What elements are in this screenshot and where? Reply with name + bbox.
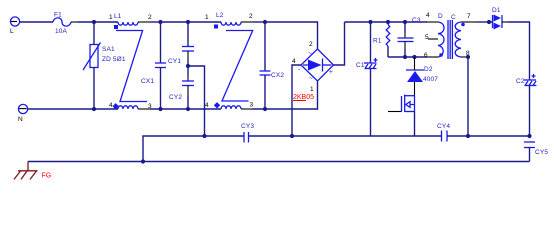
svg-text:~: ~ — [309, 75, 313, 82]
svg-text:4: 4 — [292, 58, 296, 65]
T1 pin7 lead — [461, 21, 477, 23]
svg-text:C3: C3 — [412, 17, 421, 24]
capacitor CY3 — [241, 123, 254, 143]
ground line — [28, 161, 530, 163]
pin8 drop wire — [467, 57, 469, 136]
svg-text:10A: 10A — [55, 28, 68, 35]
varistor SA1 — [83, 22, 126, 109]
node CX1 bottom — [158, 107, 162, 111]
svg-text:CY5: CY5 — [535, 149, 548, 156]
terminal N — [18, 104, 28, 123]
diode D1 (dual) — [489, 7, 508, 30]
svg-text:2: 2 — [148, 14, 152, 21]
snubber node line — [388, 56, 427, 58]
svg-text:5: 5 — [425, 34, 429, 41]
L2 core Z — [222, 31, 253, 102]
L1 polarity dot top — [114, 25, 118, 29]
svg-text:L2: L2 — [216, 12, 224, 19]
MOSFET Q1 — [388, 95, 415, 137]
svg-text:1: 1 — [205, 14, 209, 21]
bridge right lead and riser to DC rail — [334, 22, 345, 65]
node junction SA1 top — [92, 20, 96, 24]
capacitor CY5 — [524, 142, 548, 162]
minus line y136 mid segment — [249, 135, 442, 137]
node C1 top — [368, 20, 372, 24]
T1 secondary winding — [455, 22, 461, 57]
svg-text:D2: D2 — [424, 66, 433, 73]
node pin8 bottom — [466, 134, 470, 138]
capacitor CY4 — [437, 123, 450, 142]
T1 pin5 lead — [428, 38, 438, 40]
svg-text:4: 4 — [426, 12, 430, 19]
node C3 top — [403, 20, 407, 24]
svg-text:+: + — [329, 69, 333, 76]
capacitor CX1 — [141, 22, 166, 109]
electrolytic capacitor C1 — [356, 22, 378, 136]
wire fuse to L1 — [71, 21, 78, 23]
L2 polarity dot top — [214, 25, 218, 29]
common-mode choke L2 — [205, 12, 254, 109]
svg-text:L: L — [10, 28, 14, 35]
terminal L — [10, 17, 20, 35]
capacitor C3 — [398, 17, 421, 57]
wire top rail CY to L2 — [188, 21, 221, 23]
L2 top winding — [221, 22, 241, 25]
L2 polarity dot bottom — [214, 102, 220, 108]
resistor R1 — [373, 22, 390, 57]
svg-text:4: 4 — [205, 102, 209, 109]
svg-text:FG: FG — [42, 173, 52, 180]
T1 secondary polarity dot — [461, 23, 465, 27]
node junction SA1 bottom — [92, 107, 96, 111]
node CY2 bottom — [186, 107, 190, 111]
wire top rail CX2 to bridge corner — [265, 22, 318, 49]
capacitor CX2 — [260, 22, 285, 109]
T1 pin4 lead — [427, 21, 438, 23]
svg-text:7: 7 — [467, 13, 471, 20]
capacitor CY2 — [169, 66, 194, 109]
T1 primary polarity dot — [439, 53, 443, 57]
svg-text:F1: F1 — [54, 12, 62, 19]
capacitor CY1 — [168, 22, 194, 66]
svg-text:D: D — [438, 13, 443, 20]
svg-text:C2: C2 — [516, 78, 525, 85]
svg-text:D1: D1 — [492, 7, 501, 14]
svg-text:2KB05: 2KB05 — [293, 94, 314, 101]
bridge left lead and drop to minus line — [292, 65, 301, 136]
T1 core — [447, 20, 449, 59]
svg-text:CX1: CX1 — [141, 78, 154, 85]
node R1 top — [386, 20, 390, 24]
svg-text:2: 2 — [309, 41, 313, 48]
wire pin7 to D1 — [477, 21, 489, 23]
svg-text:1: 1 — [310, 86, 314, 93]
svg-text:4007: 4007 — [423, 76, 438, 83]
earth FG — [14, 162, 51, 180]
fuse F1 — [53, 12, 71, 36]
wire top rail CX1 to CY — [161, 21, 189, 23]
node drop from CY mid — [202, 134, 206, 138]
wire L to fuse — [20, 21, 54, 23]
svg-text:4: 4 — [109, 102, 113, 109]
minus line y136 left segment — [143, 136, 244, 162]
L1 top winding — [118, 22, 138, 25]
node CY midpoint — [186, 64, 190, 68]
diode D2 — [406, 57, 438, 96]
svg-text:N: N — [18, 116, 23, 123]
svg-text:6: 6 — [424, 52, 428, 59]
minus line y136 right segment — [447, 135, 530, 137]
svg-text:3: 3 — [250, 102, 254, 109]
wire L1 to CX1 top — [138, 21, 150, 23]
bottom rail from N — [28, 108, 118, 110]
L1 bottom winding — [118, 106, 138, 109]
node CY1 top — [186, 20, 190, 24]
L2 bottom winding — [221, 106, 241, 109]
node ground riser — [141, 159, 145, 163]
svg-text:C1: C1 — [356, 62, 365, 69]
wire L2 to CX2 top — [241, 21, 253, 23]
transformer T1 — [424, 12, 477, 59]
node bridge minus on line — [290, 134, 294, 138]
svg-text:CY1: CY1 — [168, 58, 181, 65]
wire D1 to right edge — [508, 22, 530, 80]
svg-text:~: ~ — [308, 50, 312, 57]
T1 pin6 lead — [427, 56, 438, 58]
svg-text:R1: R1 — [373, 38, 382, 45]
svg-text:CY4: CY4 — [437, 123, 450, 130]
svg-text:-: - — [298, 66, 300, 73]
node CX2 bottom — [263, 107, 267, 111]
DC+ rail — [345, 21, 428, 23]
svg-text:L1: L1 — [114, 13, 122, 20]
svg-text:SA1: SA1 — [102, 46, 115, 53]
bridge rectifier ZL — [292, 41, 334, 93]
svg-text:CY2: CY2 — [169, 94, 182, 101]
electrolytic capacitor C2 — [516, 74, 537, 136]
node CX2 top — [263, 20, 267, 24]
svg-text:CX2: CX2 — [271, 72, 284, 79]
node pin8 — [466, 55, 470, 59]
T1 pin8 lead — [461, 56, 468, 58]
wire CY midpoint to drop — [188, 66, 205, 136]
node C2 bottom — [527, 134, 531, 138]
svg-text:1: 1 — [109, 14, 113, 21]
svg-text:2: 2 — [249, 13, 253, 20]
svg-text:C: C — [451, 14, 456, 21]
L1 polarity dot bottom — [113, 103, 119, 109]
T1 primary winding — [438, 22, 444, 57]
common-mode choke L1 — [109, 13, 152, 110]
svg-text:CY3: CY3 — [241, 123, 254, 130]
svg-text:ZD 5Ø1: ZD 5Ø1 — [102, 56, 126, 63]
L1 core Z — [116, 31, 147, 102]
node CX1 top — [158, 20, 162, 24]
bridge inner diode — [303, 64, 308, 66]
